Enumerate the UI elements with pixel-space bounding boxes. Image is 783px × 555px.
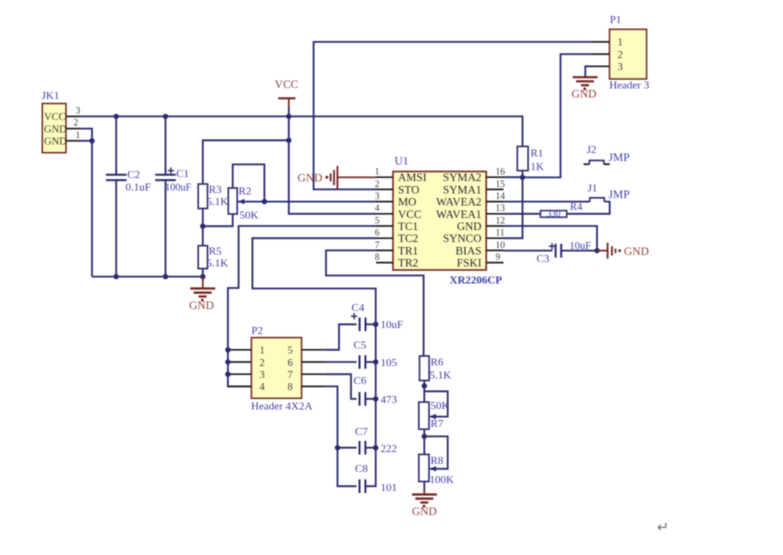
svg-text:GND: GND [44, 124, 67, 135]
svg-text:100K: 100K [430, 474, 455, 486]
svg-text:5.1K: 5.1K [430, 370, 452, 382]
svg-text:105: 105 [381, 357, 398, 369]
svg-text:P2: P2 [251, 325, 263, 337]
svg-text:2: 2 [74, 119, 79, 129]
svg-text:↵: ↵ [657, 520, 669, 536]
svg-text:4: 4 [375, 204, 380, 214]
svg-text:1: 1 [260, 346, 265, 357]
svg-text:TC1: TC1 [398, 221, 419, 233]
svg-text:6: 6 [375, 229, 380, 239]
svg-text:1: 1 [375, 168, 380, 178]
svg-text:4: 4 [260, 382, 266, 393]
svg-text:10uF: 10uF [381, 319, 404, 331]
svg-text:GND: GND [624, 246, 649, 258]
svg-text:50K: 50K [431, 400, 450, 412]
svg-text:SYNCO: SYNCO [443, 233, 482, 245]
svg-text:JMP: JMP [609, 189, 630, 201]
svg-text:R6: R6 [431, 357, 444, 369]
svg-text:3: 3 [618, 62, 623, 73]
svg-text:C3: C3 [537, 253, 550, 265]
svg-text:SYMA1: SYMA1 [443, 184, 482, 196]
svg-text:JMP: JMP [609, 152, 630, 164]
svg-text:0.1uF: 0.1uF [126, 182, 151, 194]
svg-text:P1: P1 [610, 14, 622, 26]
svg-text:C7: C7 [355, 426, 368, 438]
svg-text:5.1K: 5.1K [207, 258, 229, 270]
svg-text:JK1: JK1 [42, 90, 60, 102]
svg-text:GND: GND [44, 137, 67, 148]
svg-text:R1: R1 [531, 147, 544, 159]
svg-text:2: 2 [375, 180, 380, 190]
svg-text:8: 8 [375, 253, 380, 263]
svg-text:100uF: 100uF [165, 182, 192, 193]
svg-text:SYMA2: SYMA2 [443, 172, 482, 184]
svg-text:3: 3 [76, 106, 81, 116]
svg-text:11: 11 [496, 229, 505, 239]
svg-text:473: 473 [381, 394, 398, 406]
svg-text:3: 3 [260, 370, 265, 381]
svg-text:1K: 1K [531, 161, 545, 173]
svg-text:222: 222 [381, 443, 398, 455]
svg-text:C2: C2 [127, 169, 140, 181]
svg-text:16: 16 [496, 168, 506, 178]
svg-text:2: 2 [618, 50, 623, 61]
svg-text:13: 13 [496, 204, 506, 214]
svg-text:FSKI: FSKI [457, 258, 482, 270]
svg-text:WAVEA2: WAVEA2 [436, 197, 482, 209]
svg-text:VCC: VCC [275, 79, 299, 91]
svg-text:1: 1 [76, 131, 81, 141]
svg-text:STO: STO [398, 184, 419, 196]
svg-text:GND: GND [189, 300, 214, 312]
svg-text:TC2: TC2 [398, 233, 419, 245]
svg-text:2: 2 [260, 358, 265, 369]
svg-text:14: 14 [496, 192, 506, 202]
svg-text:9: 9 [496, 253, 501, 263]
svg-text:6: 6 [288, 358, 293, 369]
svg-text:C1: C1 [176, 168, 189, 180]
svg-text:TR2: TR2 [398, 258, 419, 270]
svg-text:15: 15 [496, 180, 506, 190]
svg-text:1: 1 [618, 38, 623, 49]
svg-text:3: 3 [375, 192, 380, 202]
svg-text:AMSI: AMSI [398, 172, 427, 184]
svg-text:8: 8 [288, 382, 293, 393]
svg-text:XR2206CP: XR2206CP [450, 275, 503, 287]
svg-text:R8: R8 [431, 455, 444, 467]
svg-text:10: 10 [496, 241, 506, 251]
svg-text:MO: MO [398, 197, 416, 209]
svg-text:U1: U1 [395, 156, 409, 168]
svg-text:VCC: VCC [398, 209, 421, 221]
svg-text:C8: C8 [355, 463, 368, 475]
svg-text:12: 12 [496, 216, 506, 226]
svg-text:R4: R4 [570, 202, 583, 213]
svg-text:VCC: VCC [44, 112, 66, 123]
svg-text:7: 7 [288, 370, 293, 381]
svg-text:C5: C5 [354, 340, 367, 352]
svg-text:5.1K: 5.1K [207, 196, 229, 208]
svg-text:GND: GND [412, 506, 437, 518]
svg-text:GND: GND [298, 172, 323, 184]
svg-text:R5: R5 [209, 245, 222, 257]
svg-text:330: 330 [547, 209, 561, 219]
svg-text:C4: C4 [352, 302, 365, 314]
svg-text:R7: R7 [431, 418, 444, 430]
svg-text:R3: R3 [209, 184, 222, 196]
svg-text:5: 5 [375, 216, 380, 226]
svg-text:TR1: TR1 [398, 245, 419, 257]
svg-text:GND: GND [572, 89, 597, 101]
svg-text:7: 7 [375, 241, 380, 251]
svg-text:50K: 50K [240, 210, 259, 222]
svg-text:J1: J1 [588, 182, 598, 194]
svg-text:BIAS: BIAS [456, 245, 482, 257]
svg-text:5: 5 [288, 346, 293, 357]
svg-text:R2: R2 [239, 185, 252, 197]
svg-text:WAVEA1: WAVEA1 [436, 209, 482, 221]
svg-text:101: 101 [381, 482, 398, 494]
svg-text:J2: J2 [587, 144, 597, 156]
svg-text:Header 3: Header 3 [609, 79, 650, 91]
svg-text:Header 4X2A: Header 4X2A [251, 401, 312, 413]
svg-text:C6: C6 [354, 375, 367, 387]
svg-text:GND: GND [457, 221, 482, 233]
